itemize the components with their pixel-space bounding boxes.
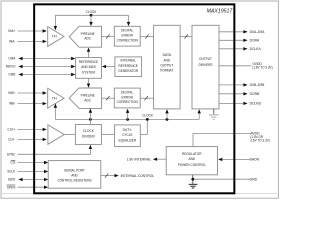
pin DCLKB label xyxy=(250,102,262,106)
svg-text:AND: AND xyxy=(164,58,171,62)
wire clock to DEC A xyxy=(127,15,130,26)
svg-text:INTERNAL: INTERNAL xyxy=(120,59,136,63)
svg-text:CORRECTION: CORRECTION xyxy=(117,100,138,104)
wire 1.8V internal xyxy=(153,158,166,161)
pin GND wire xyxy=(193,178,250,180)
svg-text:SYNC: SYNC xyxy=(7,152,16,156)
wire DECA-DOF bus xyxy=(140,35,153,39)
pin CS wire xyxy=(18,161,49,164)
wire DOF-drivers bus xyxy=(180,35,192,39)
svg-text:2.5V TO 3.3V): 2.5V TO 3.3V) xyxy=(250,139,269,143)
wire pipelineB-DECB bus xyxy=(102,96,115,100)
wire ref to pipeline B xyxy=(87,78,90,87)
svg-text:CMA: CMA xyxy=(8,57,16,61)
pin CMB wire xyxy=(18,73,75,76)
svg-text:D0A–D9A: D0A–D9A xyxy=(250,30,265,34)
pin INB- label xyxy=(9,102,16,106)
wire clock to DEC B xyxy=(126,109,129,120)
junction clock/pipelineB xyxy=(89,118,92,121)
svg-text:INA+: INA+ xyxy=(8,29,15,33)
pin CMB label xyxy=(8,73,16,77)
chip boundary xyxy=(34,4,234,193)
pin CS label xyxy=(10,160,16,164)
wire clock to T/H B xyxy=(54,104,57,120)
svg-text:CLK-: CLK- xyxy=(8,138,16,142)
page border xyxy=(1,1,278,198)
svg-text:CMB: CMB xyxy=(8,73,16,77)
svg-text:ADC: ADC xyxy=(84,37,91,41)
svg-text:SPEN: SPEN xyxy=(7,185,16,189)
wire clock to divider top xyxy=(89,119,91,124)
pin CLK+ wire xyxy=(18,128,47,131)
wire clock to T/H A xyxy=(54,15,57,30)
wire DECB-DOF bus xyxy=(140,96,153,100)
amplifier T/H A xyxy=(48,27,64,47)
svg-text:AND BIAS: AND BIAS xyxy=(81,65,96,69)
pin AVDD wire xyxy=(193,132,251,134)
ground (regulator) xyxy=(189,184,198,188)
wire divider-equalizer xyxy=(101,134,114,136)
svg-text:SCLK: SCLK xyxy=(7,170,16,174)
svg-text:(1.8V TO 3.3V): (1.8V TO 3.3V) xyxy=(252,66,272,70)
svg-text:GENERATOR: GENERATOR xyxy=(118,69,138,73)
pin SPEN label xyxy=(7,185,16,189)
svg-text:DIGITAL: DIGITAL xyxy=(121,91,133,95)
junction clock/pipelineA xyxy=(90,14,93,17)
block internal reference generator xyxy=(115,57,142,77)
pin D0B-D9B wire xyxy=(219,83,248,86)
svg-text:DATA: DATA xyxy=(163,53,172,57)
svg-text:CLOCK: CLOCK xyxy=(86,10,97,14)
svg-text:T/H: T/H xyxy=(52,96,57,100)
svg-text:OUTPUT: OUTPUT xyxy=(160,64,174,68)
net 1.8V INTERNAL label xyxy=(127,158,151,162)
wire clock to output drivers xyxy=(198,109,201,119)
svg-text:REFERENCE: REFERENCE xyxy=(79,60,99,64)
svg-text:AND: AND xyxy=(71,173,78,177)
svg-text:SERIAL PORT: SERIAL PORT xyxy=(64,168,85,172)
wire intref to ref xyxy=(102,65,115,68)
pin DORB wire xyxy=(219,92,248,95)
net INTERNAL CONTROL label xyxy=(121,174,155,178)
svg-text:OUTPUT: OUTPUT xyxy=(199,57,213,61)
block regulator and power control xyxy=(166,147,217,175)
wire clock top horizontal xyxy=(55,14,128,16)
svg-text:DIGITAL: DIGITAL xyxy=(121,29,133,33)
svg-text:DCLKB: DCLKB xyxy=(250,102,262,106)
pin SHDN wire xyxy=(218,158,250,161)
amplifier T/H B xyxy=(48,88,64,108)
svg-text:DUTY-: DUTY- xyxy=(123,128,133,132)
pin INB- wire xyxy=(18,102,47,105)
pin AVDD label xyxy=(250,131,269,142)
svg-text:DRIVERS: DRIVERS xyxy=(199,63,213,67)
logo MAX19517 xyxy=(207,9,234,15)
block pipeline ADC B xyxy=(69,88,101,108)
pin CLK+ label xyxy=(8,128,16,132)
pin DCLKA label xyxy=(250,47,262,51)
svg-text:1.8V INTERNAL: 1.8V INTERNAL xyxy=(127,158,151,162)
svg-text:SHDN: SHDN xyxy=(250,158,260,162)
svg-text:REFIO: REFIO xyxy=(6,65,16,69)
wire equalizer output xyxy=(140,119,147,134)
svg-text:DIVIDER: DIVIDER xyxy=(82,134,95,138)
svg-text:CLOCK: CLOCK xyxy=(83,129,94,133)
svg-text:DORA: DORA xyxy=(250,38,260,42)
pin SDIO wire xyxy=(18,178,48,181)
pin D0A-D9A label xyxy=(250,30,265,34)
junction clock/DOF xyxy=(166,118,169,121)
wire AVDD to regulator xyxy=(192,133,194,146)
pin D0B-D9B label xyxy=(250,83,265,87)
wire clock bottom horizontal xyxy=(55,118,199,120)
pin SCLK label xyxy=(7,170,16,174)
pin SYNC wire xyxy=(18,145,93,155)
junction clock/DECB xyxy=(126,118,129,121)
svg-text:INA-: INA- xyxy=(9,40,16,44)
pin OVDD label xyxy=(252,62,272,70)
wire clock to pipeline B xyxy=(89,109,92,120)
svg-text:EQUALIZER: EQUALIZER xyxy=(119,138,137,142)
pin SDIO label xyxy=(8,178,16,182)
pin SHDN label xyxy=(250,158,260,162)
wire ref to pipeline A xyxy=(87,48,90,58)
pin CLK- wire xyxy=(18,138,47,141)
pin INB+ label xyxy=(8,91,15,95)
junction regulator/GND xyxy=(191,178,194,181)
svg-text:DCLKA: DCLKA xyxy=(250,47,262,51)
pin INA- label xyxy=(9,40,16,44)
block digital error correction A xyxy=(114,26,140,46)
junction equalizer/clock xyxy=(146,118,149,121)
svg-text:SDIO: SDIO xyxy=(8,178,16,182)
svg-text:PIPELINE: PIPELINE xyxy=(81,32,96,36)
wire internal control bus xyxy=(101,174,119,178)
pin CLK- label xyxy=(8,138,16,142)
wire regulator to ground xyxy=(192,175,194,184)
svg-text:CLK+: CLK+ xyxy=(8,128,16,132)
net CLOCK label (top) xyxy=(86,10,97,14)
block reference and bias system xyxy=(76,58,102,79)
svg-text:CYCLE: CYCLE xyxy=(122,133,133,137)
svg-text:REGULATOR: REGULATOR xyxy=(182,152,202,156)
svg-text:GND: GND xyxy=(250,177,258,181)
pin CMA wire xyxy=(18,57,75,60)
amplifier clock input xyxy=(48,125,64,145)
ground (output drivers) xyxy=(209,109,219,120)
svg-text:CONTROL REGISTERS: CONTROL REGISTERS xyxy=(57,179,92,183)
net CLOCK label (bottom) xyxy=(142,113,153,117)
pin D0A-D9A wire xyxy=(219,30,248,33)
pin DORA label xyxy=(250,38,260,42)
svg-text:ADC: ADC xyxy=(84,98,91,102)
block clock divider xyxy=(75,125,101,145)
svg-text:T/H: T/H xyxy=(52,35,57,39)
pin DORB label xyxy=(250,92,260,96)
pin OVDD wire xyxy=(219,65,251,67)
block digital error correction B xyxy=(114,88,140,108)
svg-text:D0B–D9B: D0B–D9B xyxy=(250,83,265,87)
svg-text:CLOCK: CLOCK xyxy=(142,113,153,117)
pin DCLKB wire xyxy=(219,102,248,105)
svg-text:INTERNAL CONTROL: INTERNAL CONTROL xyxy=(121,174,155,178)
pin INB+ wire xyxy=(18,91,47,94)
svg-text:ERROR: ERROR xyxy=(122,95,134,99)
pin DORA wire xyxy=(219,39,248,42)
svg-text:POWER CONTROL: POWER CONTROL xyxy=(178,163,206,167)
pin SCLK wire xyxy=(18,170,49,173)
pin REFIO wire xyxy=(18,65,75,68)
svg-text:CORRECTION: CORRECTION xyxy=(117,38,138,42)
svg-text:REFERENCE: REFERENCE xyxy=(119,64,139,68)
pin INA+ label xyxy=(8,29,15,33)
pin SYNC label xyxy=(7,152,16,156)
wire clkamp-divider xyxy=(64,134,75,136)
wire clock to pipeline A xyxy=(89,15,92,26)
svg-text:AND: AND xyxy=(189,157,196,161)
block pipeline ADC A xyxy=(69,26,101,47)
svg-text:INB+: INB+ xyxy=(8,91,15,95)
pin INA- wire xyxy=(18,40,47,43)
block data and output format xyxy=(154,25,181,109)
svg-text:FORMAT: FORMAT xyxy=(160,69,174,73)
block output drivers xyxy=(192,25,219,109)
wire pipelineA-DECA bus xyxy=(102,35,115,39)
pin REFIO label xyxy=(6,65,16,69)
svg-text:DORB: DORB xyxy=(250,92,260,96)
svg-text:INB-: INB- xyxy=(9,102,16,106)
svg-text:SYSTEM: SYSTEM xyxy=(82,70,95,74)
svg-text:ERROR: ERROR xyxy=(122,34,134,38)
pin CMA label xyxy=(8,57,16,61)
block serial port and control registers xyxy=(48,161,101,189)
bottom rule xyxy=(1,192,279,194)
block duty-cycle equalizer xyxy=(115,125,141,147)
pin SPEN wire xyxy=(18,186,49,189)
pin DCLKA wire xyxy=(219,47,248,50)
pin INA+ wire xyxy=(18,29,47,32)
svg-text:CS: CS xyxy=(10,161,16,165)
wire clock to DOF xyxy=(165,109,168,119)
svg-text:MAX19517: MAX19517 xyxy=(207,9,234,15)
svg-text:PIPELINE: PIPELINE xyxy=(81,94,96,98)
pin GND label xyxy=(250,177,258,181)
